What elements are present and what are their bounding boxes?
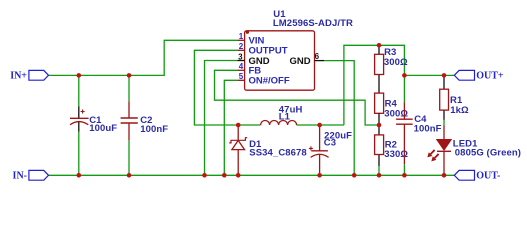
port IN-	[29, 170, 49, 180]
junction GND rail / pin3	[202, 173, 207, 178]
wire pin3 GND down to GND rail	[205, 61, 238, 176]
wire OUT+ rail	[404, 74, 454, 76]
regulator IC U1 body	[245, 31, 315, 90]
junction OUT+ rail / C4	[402, 73, 407, 78]
svg-text:C3: C3	[324, 138, 336, 149]
junction GND rail / LED1	[442, 173, 447, 178]
capacitor C2	[121, 101, 138, 140]
svg-text:ON#/OFF: ON#/OFF	[249, 76, 290, 87]
svg-text:6: 6	[315, 52, 320, 61]
junction output top run / R3	[377, 43, 382, 48]
svg-text:0805G (Green): 0805G (Green)	[455, 148, 521, 159]
junction GND rail / pin6	[352, 173, 357, 178]
wire R2 bottom lead to GND rail	[378, 166, 380, 175]
U1 pin 3 stub	[237, 60, 244, 62]
wire switch node left of L1	[238, 124, 260, 126]
wire pin5 ON#/OFF down to GND rail	[224, 80, 237, 175]
svg-text:SS34_C8678: SS34_C8678	[249, 147, 307, 158]
junction FB tap R4/R2	[377, 123, 382, 128]
wire C1 top lead to IN+ rail	[78, 75, 80, 106]
capacitor C1	[70, 107, 89, 132]
junction GND rail / pin5	[222, 173, 227, 178]
wire R1 bottom to LED1 top	[443, 120, 445, 125]
svg-text:3: 3	[238, 52, 243, 61]
wire pin4 FB to divider tap at R4/R2	[215, 70, 380, 125]
U1 pin 6 stub	[315, 60, 325, 62]
svg-text:1: 1	[239, 32, 244, 41]
junction GND rail / C2	[127, 173, 132, 178]
svg-text:OUT+: OUT+	[476, 70, 504, 81]
junction GND rail / C4	[402, 173, 407, 178]
junction switch node / D1 top	[236, 123, 241, 128]
diode D1 schottky	[229, 125, 247, 175]
port OUT-	[454, 170, 474, 180]
U1 pin 1 stub	[237, 39, 244, 41]
svg-text:4: 4	[239, 62, 244, 71]
svg-text:1kΩ: 1kΩ	[450, 105, 469, 116]
wire pin6 GND to GND rail	[324, 61, 354, 176]
svg-text:OUT-: OUT-	[476, 170, 500, 181]
junction GND rail / C3	[317, 173, 322, 178]
resistor R2	[375, 125, 384, 166]
svg-text:IN-: IN-	[13, 170, 27, 181]
wire output node right of L1 to riser	[297, 124, 344, 126]
junction OUT+ rail / R1	[442, 73, 447, 78]
capacitor C3	[309, 125, 329, 175]
svg-text:2: 2	[239, 42, 244, 51]
svg-text:GND: GND	[289, 56, 310, 67]
port OUT+	[454, 70, 474, 80]
junction GND rail / R2	[377, 173, 382, 178]
U1 pin 4 stub	[237, 69, 244, 71]
junction IN+ rail / C2	[127, 73, 132, 78]
wire output node riser and top run to OUT+	[344, 45, 405, 125]
LED LED1	[437, 125, 451, 175]
inductor L1	[261, 121, 297, 126]
svg-text:100nF: 100nF	[414, 124, 442, 135]
resistor R4	[375, 93, 384, 125]
resistor R3	[375, 45, 384, 93]
U1 origin dot	[246, 31, 249, 34]
wire C4 top lead to OUT+ rail	[403, 75, 405, 102]
resistor R1	[440, 77, 449, 120]
capacitor C4	[396, 102, 413, 164]
U1 pin 5 stub	[237, 79, 244, 81]
wire C1 bottom lead to GND rail	[78, 132, 80, 176]
wire C2 top lead to IN+ rail	[128, 75, 130, 101]
wire C4 bottom lead to GND rail	[403, 164, 405, 175]
wire C2 bottom lead to GND rail	[128, 140, 130, 175]
junction GND rail / C1	[77, 173, 82, 178]
LED1 emission arrows	[427, 149, 439, 161]
svg-text:IN+: IN+	[10, 70, 27, 81]
port IN+	[29, 70, 49, 80]
svg-text:LM2596S-ADJ/TR: LM2596S-ADJ/TR	[273, 18, 353, 29]
junction IN+ rail / C1	[77, 73, 82, 78]
svg-text:5: 5	[239, 72, 244, 81]
svg-text:100nF: 100nF	[140, 124, 168, 135]
wire net GND bottom rail	[49, 174, 455, 176]
wire net IN+ rail, riser and pin1 VIN feed	[49, 40, 238, 75]
svg-text:300Ω: 300Ω	[384, 57, 408, 68]
svg-text:L1: L1	[279, 111, 291, 122]
U1 pin 2 stub	[237, 49, 244, 51]
wire pin2 OUTPUT to switch node at D1	[194, 50, 238, 125]
svg-text:100uF: 100uF	[89, 123, 117, 134]
junction output node / C3 top	[317, 123, 322, 128]
junction GND rail / D1	[236, 173, 241, 178]
